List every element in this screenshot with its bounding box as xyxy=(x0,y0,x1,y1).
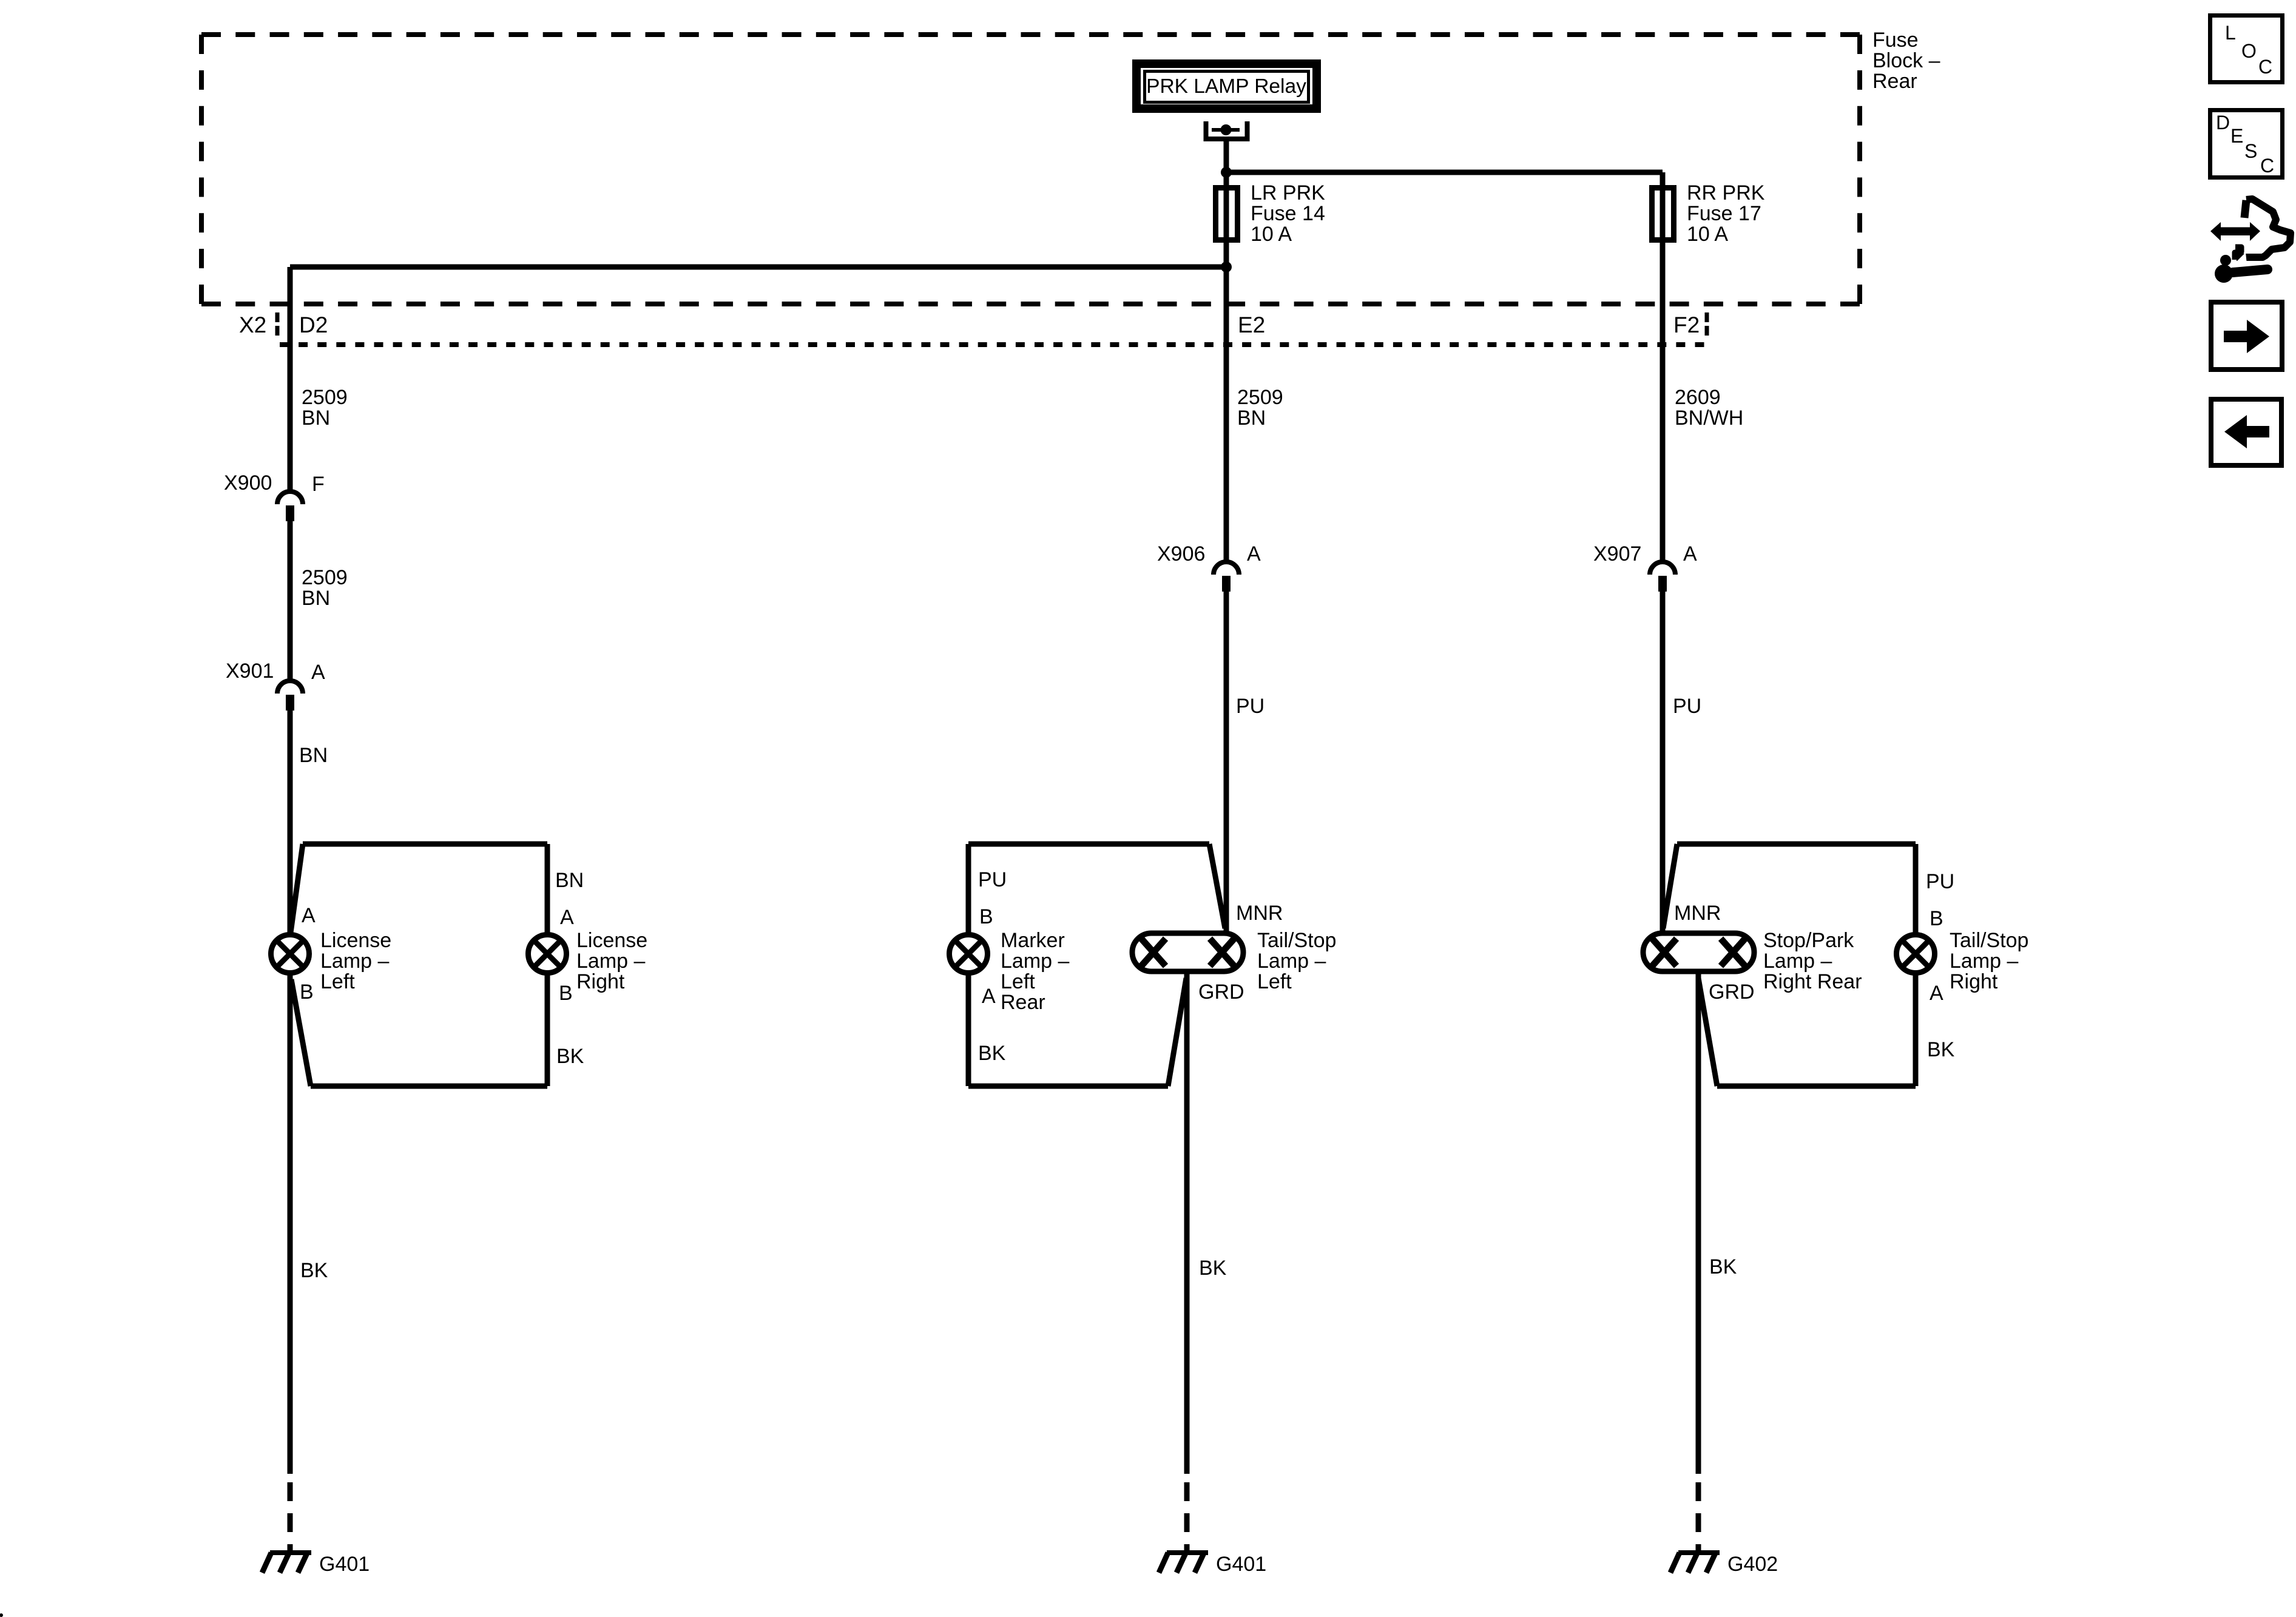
svg-text:BN: BN xyxy=(302,407,330,430)
connector X2 separator left xyxy=(275,312,280,338)
wire branch top middle xyxy=(968,844,1225,928)
label BN license right xyxy=(555,869,584,892)
lamp License Lamp - Right xyxy=(528,929,648,993)
svg-text:A: A xyxy=(1930,982,1943,1005)
svg-text:BK: BK xyxy=(556,1045,584,1068)
wire X900 to X901 xyxy=(288,521,293,681)
wire branch bottom middle xyxy=(968,978,1186,1086)
svg-text:PU: PU xyxy=(1236,695,1264,718)
pin F2 label xyxy=(1673,312,1700,337)
svg-text:Lamp –: Lamp – xyxy=(1763,950,1832,973)
label X907 xyxy=(1593,542,1641,565)
label G401 middle xyxy=(1216,1553,1266,1576)
svg-text:D2: D2 xyxy=(299,312,328,337)
label circuit 2509 BN middle xyxy=(1237,386,1283,430)
pin B license left xyxy=(300,981,314,1004)
wire X907 to stop lamp right xyxy=(1660,592,1666,933)
svg-text:B: B xyxy=(559,982,573,1005)
svg-text:Stop/Park: Stop/Park xyxy=(1763,929,1854,952)
fuse block - rear (dashed outline) xyxy=(201,35,1860,304)
svg-text:B: B xyxy=(300,981,314,1004)
wire branch top right xyxy=(1663,844,1916,928)
svg-text:Tail/Stop: Tail/Stop xyxy=(1257,929,1336,952)
svg-text:BK: BK xyxy=(1199,1257,1227,1280)
svg-text:BK: BK xyxy=(1927,1038,1955,1061)
svg-text:Lamp –: Lamp – xyxy=(1001,950,1069,973)
relay contact pin symbol xyxy=(1206,121,1248,139)
wire dashed to G401 left xyxy=(288,1482,293,1551)
label BK license right xyxy=(556,1045,584,1068)
page artifact dot xyxy=(0,1613,3,1617)
wire branch top left lamps xyxy=(291,844,547,933)
label PU tail right xyxy=(1926,870,1954,893)
label X906 xyxy=(1157,542,1205,565)
svg-text:BN: BN xyxy=(555,869,584,892)
pin B marker xyxy=(979,905,993,928)
label BK left ground wire xyxy=(300,1259,328,1282)
connector X907 xyxy=(1650,562,1675,592)
lamp Marker Lamp - Left Rear xyxy=(950,929,1070,1014)
wire relay output to bus xyxy=(1224,139,1229,187)
label BK marker branch xyxy=(978,1042,1006,1065)
svg-text:GRD: GRD xyxy=(1198,981,1244,1004)
svg-text:F: F xyxy=(312,473,325,496)
label BK middle ground wire xyxy=(1199,1257,1227,1280)
label circuit 2509 BN upper left xyxy=(302,386,348,430)
wire branch bottom left lamps xyxy=(291,979,547,1086)
label MNR middle xyxy=(1236,902,1283,925)
label GRD right xyxy=(1709,981,1755,1004)
lamp Stop/Park Lamp - Right Rear (dual filament) xyxy=(1643,929,1862,993)
connector X2 separator right xyxy=(1705,312,1709,338)
svg-text:2509: 2509 xyxy=(302,566,348,589)
svg-text:B: B xyxy=(979,905,993,928)
svg-text:Right: Right xyxy=(1950,970,1998,993)
pin B tail right xyxy=(1930,907,1943,930)
svg-text:Tail/Stop: Tail/Stop xyxy=(1950,929,2028,952)
svg-text:Left: Left xyxy=(1257,970,1292,993)
svg-text:A: A xyxy=(311,661,325,684)
connector X900 xyxy=(277,491,303,521)
svg-text:Right: Right xyxy=(576,970,625,993)
svg-text:MNR: MNR xyxy=(1236,902,1283,925)
ground G402 xyxy=(1670,1553,1720,1573)
wire bus to RR PRK fuse xyxy=(1226,170,1663,175)
svg-text:BK: BK xyxy=(300,1259,328,1282)
wire E2 down to X906 xyxy=(1224,267,1229,562)
svg-text:MNR: MNR xyxy=(1674,902,1721,925)
svg-text:Fuse 17: Fuse 17 xyxy=(1687,202,1761,225)
svg-text:E: E xyxy=(2230,125,2243,147)
label PU marker branch xyxy=(978,868,1007,891)
wire branch bottom right xyxy=(1698,978,1916,1086)
lamp License Lamp - Left xyxy=(271,929,392,993)
svg-text:PRK LAMP Relay: PRK LAMP Relay xyxy=(1146,75,1306,98)
svg-text:X2: X2 xyxy=(239,312,266,337)
connector X906 xyxy=(1214,562,1239,592)
pin E2 label xyxy=(1238,312,1265,337)
wire F2 down to X907 xyxy=(1660,267,1666,562)
label BK tail right xyxy=(1927,1038,1955,1061)
svg-text:BK: BK xyxy=(978,1042,1006,1065)
svg-text:10 A: 10 A xyxy=(1687,223,1728,246)
fuse block label xyxy=(1872,29,1940,93)
pin A license right xyxy=(560,906,574,929)
label BN left wire xyxy=(299,744,328,767)
svg-text:Right Rear: Right Rear xyxy=(1763,970,1862,993)
label circuit 2509 BN mid left xyxy=(302,566,348,610)
svg-text:BK: BK xyxy=(1709,1255,1737,1278)
svg-text:BN: BN xyxy=(299,744,328,767)
pin B license right xyxy=(559,982,573,1005)
svg-text:Fuse: Fuse xyxy=(1872,29,1919,52)
wire D2 down to X900 xyxy=(288,267,293,491)
svg-text:2509: 2509 xyxy=(1237,386,1283,409)
label BK right ground wire xyxy=(1709,1255,1737,1278)
svg-text:PU: PU xyxy=(1926,870,1954,893)
ground G401 left xyxy=(262,1553,311,1573)
svg-text:BN: BN xyxy=(1237,407,1266,430)
svg-text:Lamp –: Lamp – xyxy=(1950,950,2018,973)
wire X901 to license lamp xyxy=(288,711,293,933)
fuse F17 RR PRK 10A xyxy=(1652,181,1765,246)
svg-text:C: C xyxy=(2260,155,2274,177)
wire license left B down xyxy=(288,975,293,1474)
svg-text:Lamp –: Lamp – xyxy=(320,950,389,973)
label G401 left xyxy=(319,1553,370,1576)
icon LOC box xyxy=(2210,16,2283,83)
icon DESC box xyxy=(2210,110,2283,178)
svg-text:Left: Left xyxy=(320,970,355,993)
pin D2 label xyxy=(299,312,328,337)
svg-text:Lamp –: Lamp – xyxy=(1257,950,1326,973)
svg-text:Marker: Marker xyxy=(1001,929,1065,952)
svg-text:A: A xyxy=(560,906,574,929)
wire branch right vertical (license right) xyxy=(545,844,550,933)
lamp Tail/Stop Lamp - Left (dual filament) xyxy=(1132,929,1336,993)
node LR fuse output junction xyxy=(1221,262,1232,272)
wire X906 to tail lamp left xyxy=(1224,592,1229,933)
svg-text:Block –: Block – xyxy=(1872,49,1940,72)
node bus junction xyxy=(1221,167,1232,178)
svg-text:A: A xyxy=(302,904,316,927)
label MNR right xyxy=(1674,902,1721,925)
pin A tail right xyxy=(1930,982,1943,1005)
svg-text:2509: 2509 xyxy=(302,386,348,409)
svg-text:G401: G401 xyxy=(319,1553,370,1576)
connector X901 xyxy=(277,681,303,711)
svg-text:BN/WH: BN/WH xyxy=(1675,407,1743,430)
wire GRD middle down xyxy=(1184,973,1190,1474)
svg-text:S: S xyxy=(2244,140,2257,162)
label G402 xyxy=(1727,1553,1778,1576)
svg-text:A: A xyxy=(982,985,996,1008)
svg-text:C: C xyxy=(2258,56,2272,78)
svg-text:Rear: Rear xyxy=(1872,70,1917,93)
wire marker branch vertical xyxy=(966,844,971,933)
icon wiring repair (arrow through connector with wrench) xyxy=(2210,199,2291,283)
svg-text:Lamp –: Lamp – xyxy=(576,950,645,973)
svg-text:RR PRK: RR PRK xyxy=(1687,181,1765,204)
svg-text:X900: X900 xyxy=(224,471,272,495)
pin A marker xyxy=(982,985,996,1008)
svg-text:PU: PU xyxy=(978,868,1007,891)
pin A label X906 xyxy=(1247,542,1261,565)
svg-text:Rear: Rear xyxy=(1001,991,1045,1014)
svg-text:License: License xyxy=(576,929,647,952)
svg-text:X901: X901 xyxy=(226,660,274,683)
svg-text:D: D xyxy=(2216,112,2230,133)
wire tail lamp right vertical xyxy=(1913,844,1919,933)
pin A license left xyxy=(302,904,316,927)
svg-text:2609: 2609 xyxy=(1675,386,1721,409)
svg-text:E2: E2 xyxy=(1238,312,1265,337)
wire tail right A down xyxy=(1913,975,1919,1086)
svg-text:G401: G401 xyxy=(1216,1553,1266,1576)
label PU right wire xyxy=(1673,695,1701,718)
label X2 xyxy=(239,312,266,337)
svg-text:License: License xyxy=(320,929,391,952)
svg-text:Fuse 14: Fuse 14 xyxy=(1251,202,1325,225)
svg-text:PU: PU xyxy=(1673,695,1701,718)
svg-text:Left: Left xyxy=(1001,970,1035,993)
label PU middle wire xyxy=(1236,695,1264,718)
connector X2 dotted grid line xyxy=(280,342,1704,347)
wire into LR PRK fuse xyxy=(1224,185,1229,267)
svg-text:A: A xyxy=(1683,542,1697,565)
label GRD middle xyxy=(1198,981,1244,1004)
wire dashed to G402 xyxy=(1696,1482,1701,1551)
svg-text:BN: BN xyxy=(302,587,330,610)
relay PRK LAMP Relay box xyxy=(1136,64,1317,109)
ground G401 middle xyxy=(1159,1553,1208,1573)
label circuit 2609 BN/WH xyxy=(1675,386,1743,430)
icon back arrow box xyxy=(2211,399,2281,465)
pin A label X901 xyxy=(311,661,325,684)
label X901 xyxy=(226,660,274,683)
svg-text:GRD: GRD xyxy=(1709,981,1755,1004)
lamp Tail/Stop Lamp - Right xyxy=(1897,929,2029,993)
fuse F14 LR PRK 10A xyxy=(1216,181,1326,246)
svg-text:X906: X906 xyxy=(1157,542,1205,565)
wire LR fuse to D2 branch xyxy=(290,265,1226,270)
label X900 xyxy=(224,471,272,495)
wire license right B down xyxy=(545,975,550,1086)
pin F label xyxy=(312,473,325,496)
svg-text:10 A: 10 A xyxy=(1251,223,1292,246)
svg-text:A: A xyxy=(1247,542,1261,565)
svg-text:X907: X907 xyxy=(1593,542,1641,565)
wire marker A down xyxy=(966,975,971,1086)
wire dashed to G401 middle xyxy=(1184,1482,1190,1551)
pin A label X907 xyxy=(1683,542,1697,565)
wire into RR PRK fuse xyxy=(1660,172,1666,267)
svg-text:B: B xyxy=(1930,907,1943,930)
wire GRD right down xyxy=(1696,973,1701,1474)
svg-text:LR PRK: LR PRK xyxy=(1251,181,1325,204)
svg-text:F2: F2 xyxy=(1673,312,1700,337)
icon forward arrow box xyxy=(2211,302,2282,370)
svg-text:G402: G402 xyxy=(1727,1553,1778,1576)
svg-text:O: O xyxy=(2241,40,2257,62)
svg-text:L: L xyxy=(2225,22,2236,44)
